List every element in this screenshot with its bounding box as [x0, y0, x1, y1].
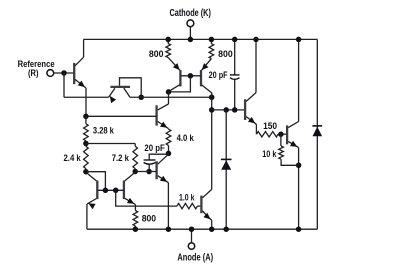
- node Q8 collector top rail: [296, 37, 302, 43]
- node diode column top: [223, 107, 229, 113]
- node cap upper top: [232, 37, 238, 43]
- transistor Q11 NPN lower driver: [200, 196, 202, 214]
- node Q2 collector-base tie: [138, 95, 144, 101]
- svg-text:10 k: 10 k: [262, 149, 277, 159]
- wire anode lead: [191, 229, 193, 243]
- terminal Reference (R): [47, 70, 54, 77]
- wire cathode lead: [189, 27, 191, 40]
- node cap column bottom: [232, 107, 238, 113]
- transistor Q5 gain NPN: [155, 105, 157, 125]
- wire bottom rail anode bus: [87, 228, 317, 230]
- svg-text:1.0 k: 1.0 k: [179, 192, 195, 202]
- node cap lower bottom: [146, 169, 152, 175]
- node reference base junction: [61, 70, 67, 76]
- resistor R7 150: [256, 132, 278, 137]
- node 800 right top: [209, 37, 215, 43]
- wire Q1 emitter down: [85, 88, 87, 116]
- node 150 right: [278, 131, 284, 137]
- wire reference node to Q2 emitter: [64, 96, 109, 98]
- node 800 bottom rail: [133, 226, 139, 232]
- svg-text:4.0 k: 4.0 k: [177, 133, 195, 143]
- wire mirror output column: [211, 93, 213, 189]
- resistor R2 800 right: [210, 39, 212, 43]
- wire Q8 emitter down: [298, 148, 300, 230]
- resistor R8 10 k: [280, 134, 282, 146]
- node base tie right: [113, 188, 119, 194]
- wire top rail cathode bus: [84, 38, 318, 40]
- resistor R1 800 left: [167, 39, 169, 43]
- svg-text:2.4 k: 2.4 k: [64, 153, 82, 163]
- node anode on bottom rail: [189, 226, 195, 232]
- transistor Q2 lateral PNP: [110, 86, 130, 88]
- node 7.2k bottom: [132, 169, 138, 175]
- svg-text:800: 800: [142, 214, 156, 224]
- node Q6 emitter on rail: [166, 226, 172, 232]
- svg-text:800: 800: [218, 49, 233, 59]
- node mirror diode connection: [166, 89, 172, 95]
- node Q5 base node: [83, 114, 89, 120]
- svg-text:150: 150: [263, 121, 277, 131]
- node D1 bottom rail: [223, 226, 229, 232]
- capacitor C1 20 pF upper: [234, 39, 236, 75]
- transistor Q1 input NPN: [73, 63, 75, 84]
- wire 2.4k node to bases: [86, 172, 106, 191]
- node divider mid: [83, 141, 89, 147]
- svg-text:20 pF: 20 pF: [209, 70, 228, 80]
- wire Q6 emitter down to rail: [167, 183, 169, 230]
- wire Q9 emitter to rail corner: [86, 204, 88, 229]
- wire Q10 emitter to 800 bottom: [134, 205, 136, 211]
- wire mirror left collector down to Q5: [168, 92, 170, 104]
- wire divider mid to 7.2k: [86, 143, 135, 145]
- diode D2 right: [312, 125, 322, 127]
- wire Q9 Q10 base tie: [97, 189, 124, 191]
- resistor R9 800 bottom: [133, 211, 138, 227]
- transistor Q4 mirror PNP right: [200, 70, 202, 87]
- wire Q2 base box: [120, 78, 142, 97]
- transistor Q10 mirror NPN right: [123, 181, 125, 200]
- node mirror bases: [188, 73, 194, 79]
- node mid rail to column: [209, 107, 215, 113]
- node Q11 emitter on rail: [209, 226, 215, 232]
- resistor R5 7.2 k: [134, 144, 136, 147]
- wire mirror base to left collector: [169, 76, 191, 92]
- transistor Q8 output NPN: [286, 125, 288, 144]
- node 2.4k bottom: [83, 169, 89, 175]
- transistor Q6 NPN second stage: [155, 161, 157, 179]
- node cathode on top rail: [188, 37, 194, 43]
- wire mirror base tie: [180, 75, 201, 77]
- resistor R10 1.0 k: [177, 203, 198, 208]
- svg-text:Anode (A): Anode (A): [177, 252, 213, 263]
- svg-text:(R): (R): [28, 68, 39, 78]
- wire base line y110: [212, 109, 245, 111]
- transistor Q7 NPN driver upper: [244, 99, 246, 120]
- wire Q7 emitter to 150: [255, 124, 257, 134]
- terminal Cathode (K): [187, 20, 194, 27]
- node base tie left: [103, 188, 109, 194]
- capacitor C2 20 pF lower: [149, 154, 168, 160]
- resistor R3 3.28 k: [85, 116, 87, 124]
- resistor R4 2.4 k: [85, 144, 87, 147]
- resistor R6 4.0 k: [168, 128, 170, 131]
- svg-text:800: 800: [149, 49, 164, 59]
- svg-text:3.28 k: 3.28 k: [93, 125, 115, 135]
- diode D1 middle: [225, 110, 227, 229]
- wire reference node down: [63, 73, 65, 97]
- terminal Anode (A): [188, 243, 194, 249]
- node 800 left top: [165, 37, 171, 43]
- node Q8 emitter 10k junction: [296, 163, 302, 169]
- transistor Q3 mirror PNP left: [179, 70, 181, 87]
- wire mid rail y97: [130, 96, 212, 98]
- transistor Q9 mirror NPN left: [96, 181, 98, 200]
- svg-text:7.2 k: 7.2 k: [112, 153, 130, 163]
- node Q7 collector top rail: [253, 37, 259, 43]
- svg-text:Cathode (K): Cathode (K): [170, 8, 211, 19]
- node Q8 emitter on rail: [296, 226, 302, 232]
- wire reference to Q1 base: [54, 72, 74, 74]
- node right PNP collector: [209, 95, 215, 101]
- wire right side vertical (cathode to anode): [316, 39, 318, 229]
- wire Q11 emitter to rail: [211, 220, 213, 229]
- svg-text:20 pF: 20 pF: [144, 143, 165, 153]
- node Q6 collector node: [166, 151, 172, 157]
- wire base node down to 1.0k: [116, 190, 177, 206]
